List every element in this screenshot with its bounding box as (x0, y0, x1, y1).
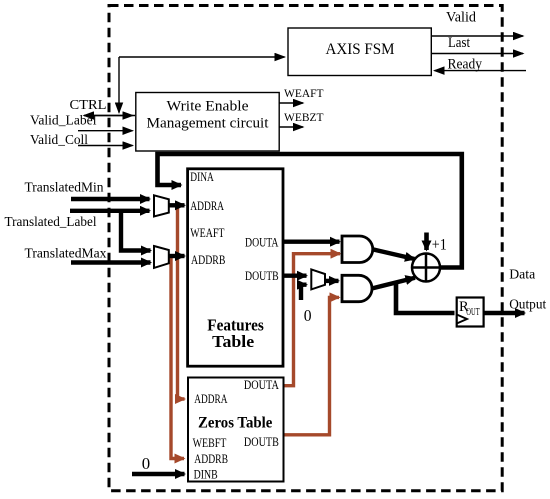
wire brown ADDRB to Zeros Table ADDRB (171, 256, 184, 459)
svg-text:Last: Last (448, 35, 470, 51)
svg-text:Ready: Ready (448, 56, 483, 72)
wire brown Zeros DOUTB to AND gate G2 (284, 297, 340, 434)
wire M3 output to AND gate G2 (325, 279, 339, 283)
AND gate G1 (342, 236, 373, 263)
svg-text:+1: +1 (432, 237, 447, 254)
svg-text:ADDRA: ADDRA (190, 199, 224, 213)
wire DOUTB to mux M3 (283, 274, 307, 278)
adder A1 (circle with plus) (412, 254, 440, 282)
svg-text:Write Enable: Write Enable (167, 99, 249, 115)
net TranslatedMax bus wire (71, 260, 151, 264)
svg-text:Data: Data (509, 268, 536, 283)
wire constant 0 to DINB (132, 472, 185, 476)
wire G2 output tap down to register R_OUT (396, 283, 455, 313)
wire brown ADDRA to Zeros Table ADDRA (178, 205, 185, 399)
svg-text:OUT: OUT (466, 307, 479, 318)
net Translated_Label bus wire (70, 209, 150, 213)
svg-text:WEBFT: WEBFT (193, 436, 227, 450)
wire M1 output to ADDRA (169, 203, 185, 207)
svg-text:ADDRB: ADDRB (194, 452, 228, 466)
svg-text:WEBZT: WEBZT (284, 110, 324, 124)
svg-text:WEAFT: WEAFT (190, 226, 225, 240)
wire +1 constant into adder (424, 233, 429, 251)
svg-text:DOUTA: DOUTA (245, 236, 279, 250)
svg-text:ADDRA: ADDRA (194, 392, 227, 406)
Write Enable Management circuit U2 box (136, 93, 279, 152)
svg-text:DOUTB: DOUTB (244, 435, 279, 449)
wire G2 output to adder (372, 278, 415, 289)
net WEAFT stub wire (279, 102, 303, 104)
wire brown Zeros DOUTA to AND gate G1 (284, 254, 341, 386)
wire G1 output to adder (373, 249, 415, 259)
net Ready input wire (435, 70, 527, 72)
net CTRL input wire (84, 115, 135, 117)
AND gate G2 (342, 275, 372, 301)
svg-text:Table: Table (212, 332, 254, 351)
wire feedback loop from adder to DINA (158, 154, 462, 268)
wire CTRL branch to AXIS FSM (horizontal) (119, 56, 285, 58)
net Valid output wire (431, 35, 523, 37)
net Last output wire (431, 53, 523, 55)
svg-text:Valid: Valid (446, 10, 477, 26)
net TranslatedMin bus wire (71, 197, 150, 201)
AXIS FSM U1 box (288, 28, 431, 76)
svg-text:CTRL: CTRL (70, 98, 107, 113)
wire constant 0 into mux M3 (301, 285, 307, 300)
svg-text:DINB: DINB (194, 468, 218, 482)
svg-text:DINA: DINA (190, 170, 214, 184)
wire Translated_Label branch down to mux M2 (121, 211, 151, 251)
register R_OUT (457, 298, 484, 327)
svg-text:ADDRB: ADDRB (191, 253, 225, 267)
svg-text:Output: Output (509, 298, 546, 313)
svg-text:0: 0 (304, 306, 312, 325)
wire M2 output to ADDRB (169, 254, 185, 258)
svg-text:Translated_Label: Translated_Label (5, 215, 97, 230)
memory U3 Features Table (188, 169, 283, 366)
svg-text:DOUTA: DOUTA (244, 378, 279, 392)
mux M3 (DOUTB/0 select) (311, 269, 325, 289)
svg-text:Valid_Label: Valid_Label (30, 114, 97, 129)
memory U4 Zeros Table (188, 378, 284, 482)
svg-text:Zeros Table: Zeros Table (198, 414, 272, 431)
wire CTRL branch vertical with down arrow (118, 57, 120, 113)
dashed system boundary box (109, 6, 502, 491)
net WEBZT stub wire (279, 126, 303, 128)
mux M1 (ADDRA select) (154, 195, 169, 216)
mux M2 (ADDRB select) (154, 246, 169, 268)
net Valid_Label input wire (78, 130, 133, 132)
svg-text:0: 0 (142, 454, 150, 473)
svg-text:AXIS FSM: AXIS FSM (326, 41, 395, 58)
svg-text:WEAFT: WEAFT (284, 86, 324, 100)
net Valid_Coll input wire (78, 145, 133, 147)
svg-text:TranslatedMin: TranslatedMin (25, 181, 104, 196)
svg-text:TranslatedMax: TranslatedMax (25, 247, 107, 262)
svg-text:Management circuit: Management circuit (147, 116, 269, 132)
svg-text:DOUTB: DOUTB (245, 269, 279, 283)
wire R_OUT output (Output) (484, 311, 525, 316)
wire DOUTA to AND gate G1 (283, 239, 340, 243)
